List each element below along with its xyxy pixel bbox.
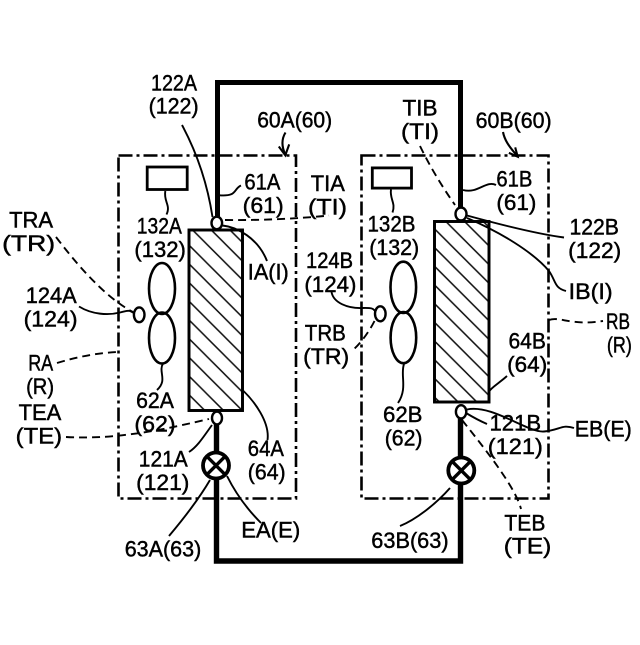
svg-text:(64): (64) [507, 352, 547, 377]
svg-text:124A: 124A [26, 283, 77, 308]
svg-text:61B: 61B [496, 167, 532, 192]
svg-text:(64): (64) [248, 460, 286, 485]
svg-text:124B: 124B [306, 248, 353, 273]
svg-text:60B(60): 60B(60) [476, 108, 552, 133]
svg-text:(TE): (TE) [504, 534, 552, 559]
svg-text:RA: RA [28, 351, 53, 376]
svg-text:(TR): (TR) [2, 231, 55, 256]
svg-text:TEB: TEB [504, 511, 545, 536]
svg-text:121B: 121B [490, 410, 542, 435]
svg-text:(61): (61) [496, 190, 536, 215]
svg-text:EA(E): EA(E) [241, 517, 300, 542]
svg-text:(TI): (TI) [401, 119, 439, 144]
svg-text:(61): (61) [243, 193, 284, 218]
svg-text:(124): (124) [24, 307, 78, 332]
svg-text:122B: 122B [570, 215, 619, 240]
svg-text:132A: 132A [137, 213, 182, 238]
svg-text:(132): (132) [134, 237, 186, 262]
svg-text:(R): (R) [607, 333, 632, 358]
svg-text:TIA: TIA [311, 171, 345, 196]
svg-text:122A: 122A [151, 70, 197, 95]
svg-text:(121): (121) [488, 434, 543, 459]
svg-text:63B(63): 63B(63) [371, 528, 448, 553]
svg-text:61A: 61A [244, 169, 280, 194]
svg-text:IA(I): IA(I) [248, 259, 289, 284]
svg-text:(121): (121) [136, 470, 189, 495]
svg-text:62B: 62B [383, 402, 423, 427]
svg-text:(132): (132) [369, 235, 419, 260]
svg-text:64A: 64A [248, 436, 284, 461]
svg-text:(124): (124) [304, 272, 356, 297]
svg-text:TIB: TIB [403, 95, 438, 120]
svg-text:(TI): (TI) [308, 194, 347, 219]
svg-text:(R): (R) [26, 374, 54, 399]
svg-text:RB: RB [606, 309, 630, 334]
svg-text:60A(60): 60A(60) [257, 108, 332, 133]
svg-text:(TE): (TE) [16, 424, 62, 449]
svg-text:(122): (122) [568, 238, 621, 263]
svg-text:132B: 132B [368, 211, 416, 236]
svg-text:TRB: TRB [305, 321, 346, 346]
svg-text:62A: 62A [136, 388, 174, 413]
svg-text:63A(63): 63A(63) [125, 537, 202, 562]
svg-text:121A: 121A [139, 447, 188, 472]
svg-text:(62): (62) [385, 425, 423, 450]
svg-text:(62): (62) [134, 412, 175, 437]
svg-text:EB(E): EB(E) [575, 417, 632, 442]
svg-text:TRA: TRA [9, 208, 53, 233]
svg-text:64B: 64B [509, 329, 546, 354]
svg-text:IB(I): IB(I) [569, 279, 613, 304]
svg-text:TEA: TEA [19, 400, 62, 425]
svg-text:(122): (122) [149, 94, 199, 119]
svg-text:(TR): (TR) [303, 344, 349, 369]
